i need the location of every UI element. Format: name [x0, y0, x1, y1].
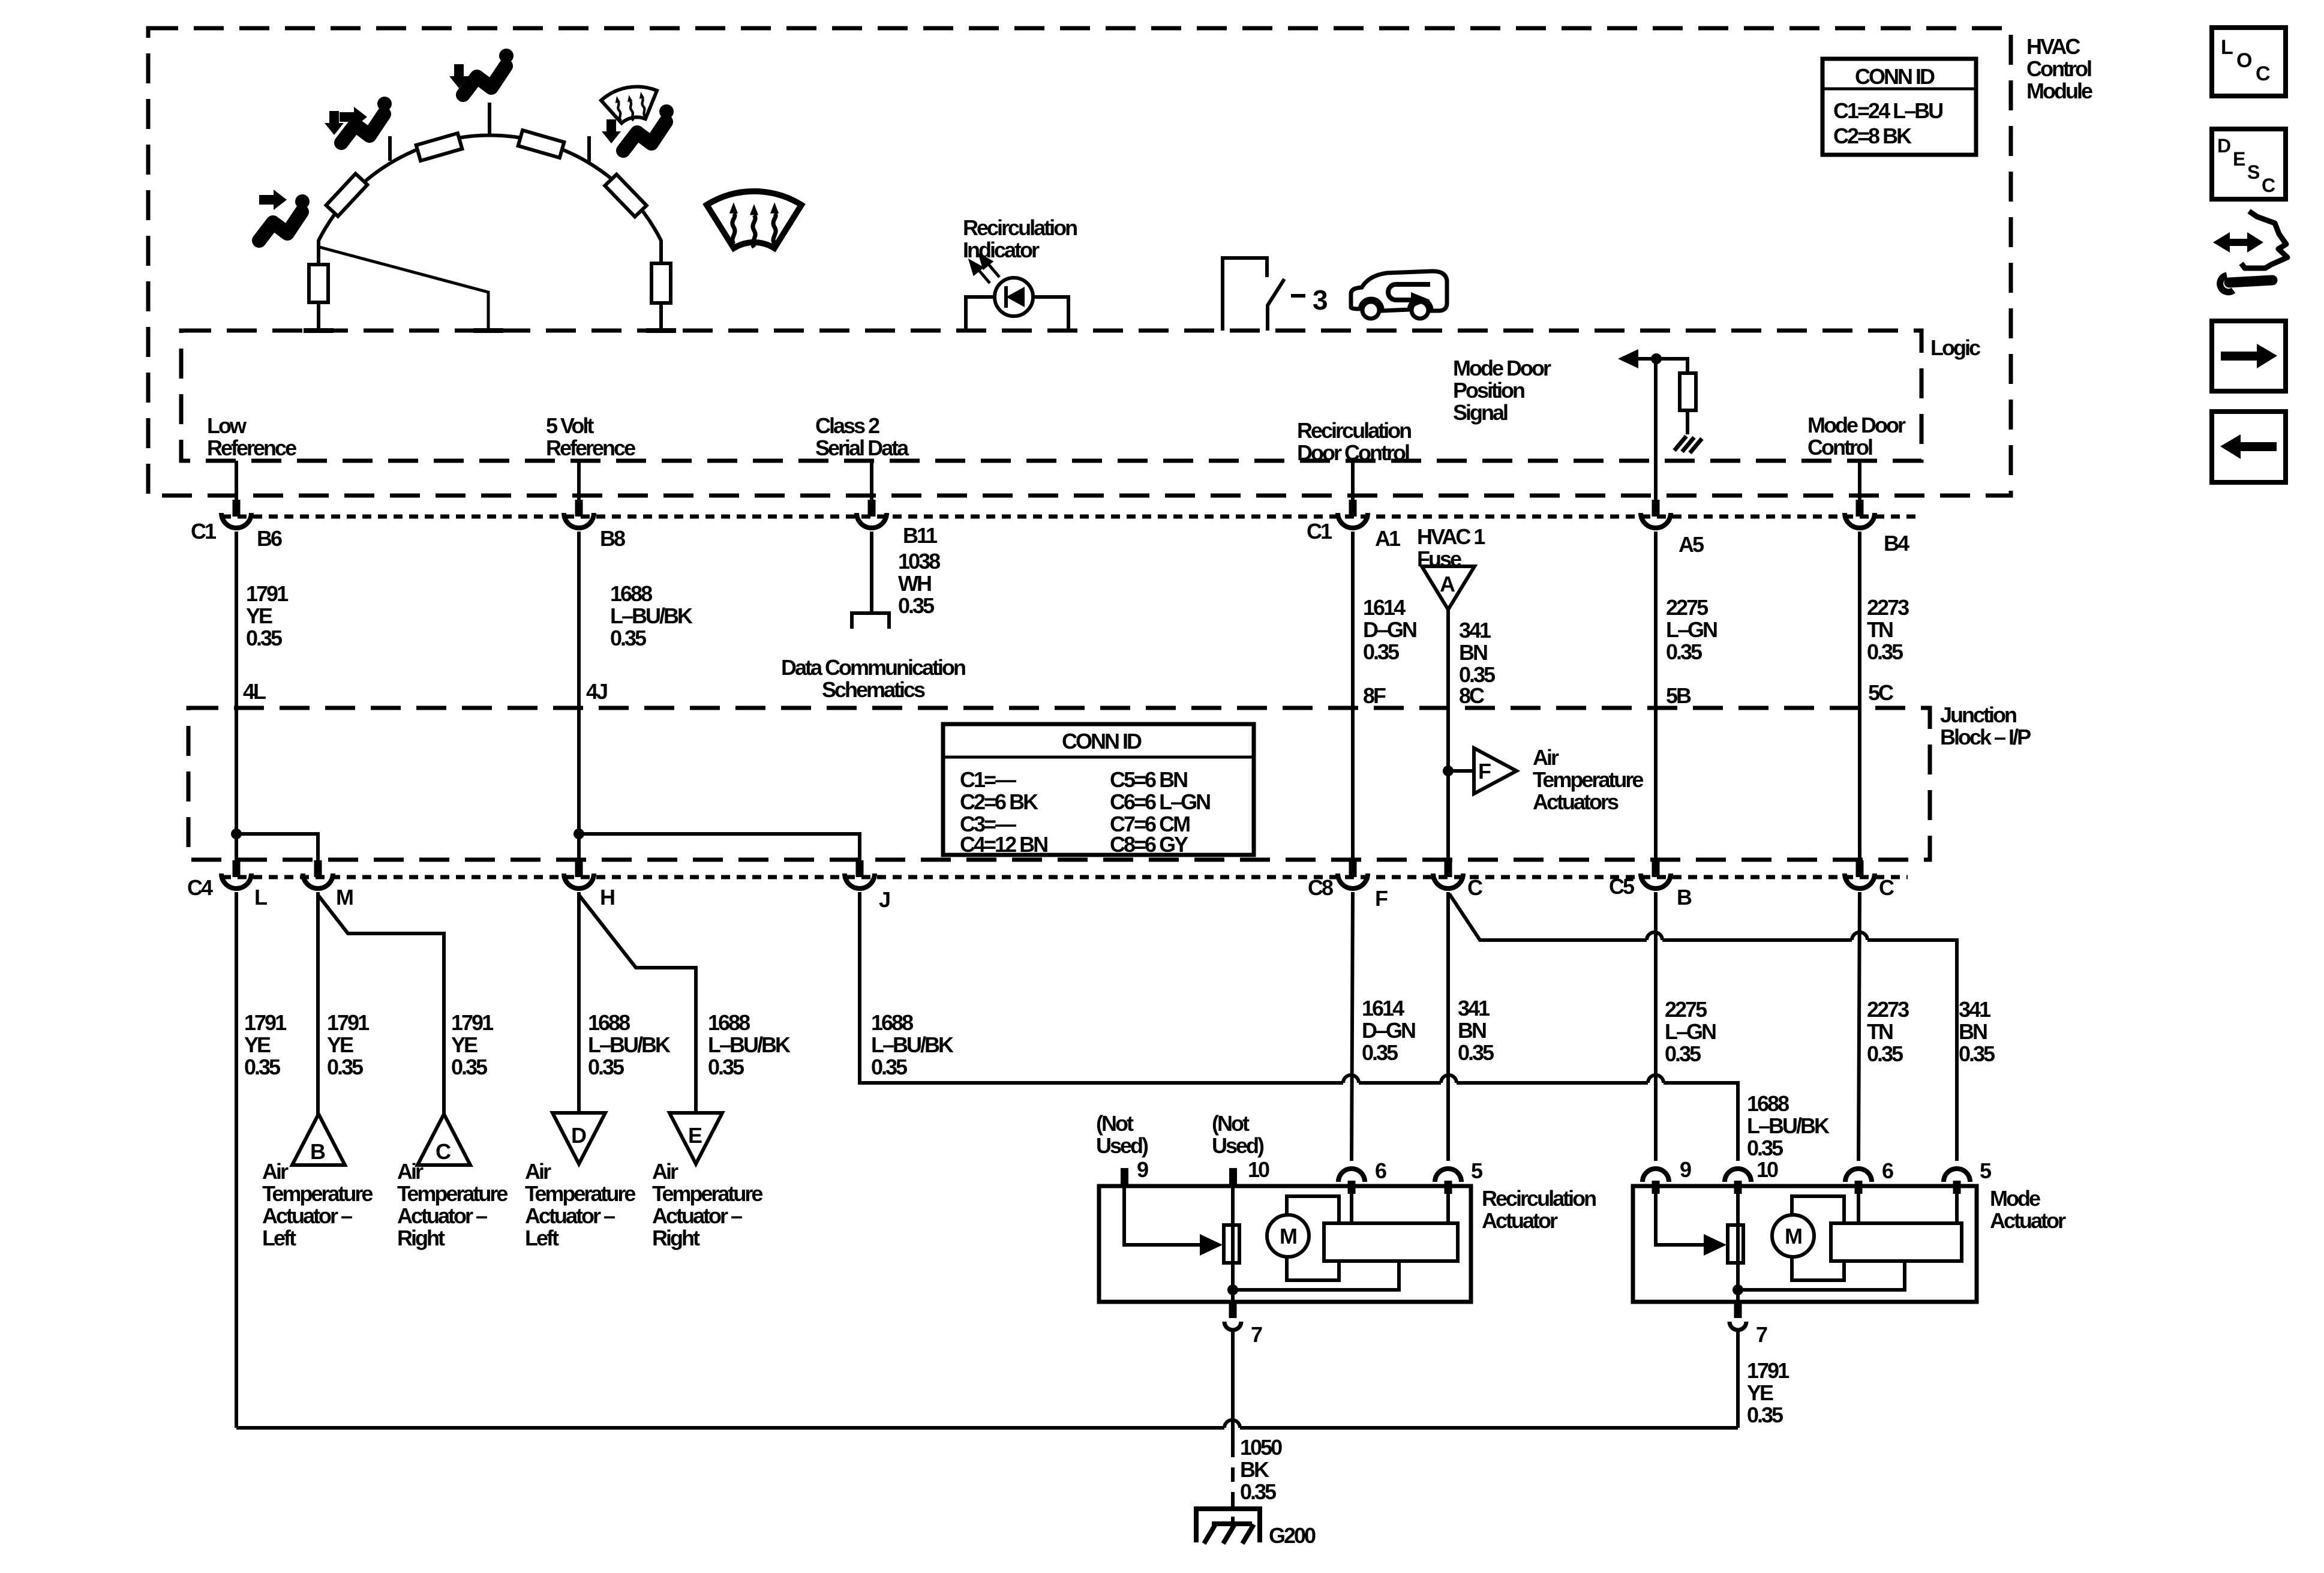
- wire 1688 B8 to junction 4J: [577, 532, 581, 877]
- triangle C: [418, 1114, 470, 1165]
- mode pin 6 connector: [1845, 1169, 1872, 1194]
- node mode wiper dot: [1733, 1284, 1743, 1295]
- svg-text:BK: BK: [1240, 1457, 1269, 1482]
- CONN ID table (middle): [943, 724, 1254, 857]
- svg-text:2275: 2275: [1665, 997, 1707, 1022]
- svg-text:Actuators: Actuators: [1533, 789, 1619, 814]
- connector H: [564, 873, 594, 888]
- svg-text:CONN ID: CONN ID: [1855, 64, 1935, 89]
- svg-text:BN: BN: [1459, 640, 1487, 665]
- mode pin 5 connector: [1944, 1169, 1970, 1194]
- wire 1038 WH to off-page: [870, 532, 873, 612]
- svg-text:Used): Used): [1096, 1133, 1148, 1158]
- svg-text:Reference: Reference: [546, 436, 635, 460]
- pin C1 A1: [1349, 500, 1357, 517]
- label 2273 TN 0.35 lower: [1867, 997, 1909, 1066]
- dashed wire to G200: [1231, 1443, 1235, 1525]
- svg-text:0.35: 0.35: [871, 1055, 908, 1079]
- svg-text:L–GN: L–GN: [1665, 1019, 1716, 1044]
- svg-text:C8: C8: [1308, 875, 1333, 900]
- svg-text:O: O: [2236, 49, 2252, 72]
- svg-text:1688: 1688: [871, 1010, 913, 1035]
- mode slider bar: [1831, 1223, 1962, 1261]
- label 1614 D-GN 0.35 lower: [1362, 996, 1415, 1065]
- mode pin5 wire into slider: [1955, 1187, 1959, 1223]
- Low Reference label: [207, 413, 296, 460]
- Mode Actuator label: [1990, 1186, 2066, 1233]
- wire 5V reference logic to B8: [577, 461, 581, 502]
- label 1791 YE 0.35 (C branch): [451, 1010, 494, 1079]
- svg-text:Actuator: Actuator: [1990, 1208, 2066, 1233]
- Air Temperature Actuators label: [1533, 745, 1643, 814]
- svg-text:Temperature: Temperature: [262, 1181, 373, 1206]
- HVAC Control Module label: [2026, 34, 2092, 103]
- svg-text:Actuator –: Actuator –: [525, 1203, 615, 1228]
- recirc pin5 wire into slider: [1446, 1187, 1450, 1223]
- seat icon vent arrow right: [259, 190, 287, 210]
- LOC nav box: [2212, 28, 2286, 96]
- mode pin6 wire into slider: [1857, 1187, 1860, 1223]
- wire 1050 BK down: [1231, 1332, 1235, 1443]
- svg-text:Schematics: Schematics: [822, 677, 925, 702]
- off-page staple symbol: [852, 613, 889, 629]
- selector left leg wire: [317, 240, 320, 265]
- svg-text:3: 3: [1313, 284, 1328, 316]
- label 1688 L-BU/BK 0.35 (mode 10): [1747, 1091, 1830, 1160]
- pullup resistor: [1680, 373, 1696, 410]
- wire C8 F to recirc pin 6: [1352, 892, 1353, 1161]
- svg-text:Recirculation: Recirculation: [1482, 1186, 1596, 1211]
- connector B11: [857, 513, 887, 528]
- svg-text:0.35: 0.35: [898, 593, 935, 618]
- svg-text:C4=12 BN: C4=12 BN: [960, 832, 1047, 857]
- node mode door position junction dot: [1651, 353, 1662, 364]
- svg-text:10: 10: [1248, 1157, 1269, 1182]
- svg-text:D–GN: D–GN: [1363, 617, 1416, 642]
- wire 1614 D-GN A1 to junction 8F: [1351, 532, 1355, 877]
- svg-text:YE: YE: [1747, 1380, 1773, 1405]
- wire 341 BN fuse to junction 8C: [1446, 610, 1450, 877]
- svg-text:1688: 1688: [588, 1010, 630, 1035]
- svg-text:10: 10: [1756, 1157, 1778, 1182]
- svg-text:C: C: [436, 1139, 451, 1164]
- wire class2 logic to B11: [870, 461, 873, 502]
- pin J: [856, 860, 864, 877]
- svg-text:1791: 1791: [451, 1010, 494, 1035]
- selector detent stub top: [488, 103, 491, 134]
- Recirculation Door Control label: [1297, 418, 1411, 465]
- svg-text:1791: 1791: [244, 1010, 287, 1035]
- svg-text:9: 9: [1137, 1157, 1148, 1182]
- connector M: [303, 873, 333, 888]
- connector B8: [564, 513, 594, 528]
- wire C5 B to mode pin 9: [1654, 892, 1658, 1161]
- label 341 BN 0.35 col5: [1459, 618, 1496, 687]
- svg-text:Logic: Logic: [1930, 335, 1980, 360]
- svg-text:1050: 1050: [1240, 1435, 1282, 1460]
- selector left leg wire lower: [317, 302, 320, 331]
- svg-text:Mode: Mode: [1990, 1186, 2040, 1211]
- Air Temperature Actuator - Left label (D): [525, 1159, 635, 1250]
- svg-text:C8=6 GY: C8=6 GY: [1110, 832, 1188, 857]
- Mode Door Position Signal label: [1453, 356, 1551, 425]
- svg-text:Air: Air: [397, 1159, 424, 1184]
- pin C1 B6: [233, 500, 241, 517]
- Data Communication Schematics label: [781, 655, 965, 702]
- svg-text:0.35: 0.35: [1362, 1040, 1398, 1065]
- LED light arrows: [971, 256, 999, 283]
- svg-text:B: B: [1677, 885, 1692, 909]
- seat icon bilevel arrow down: [325, 111, 344, 135]
- node recirc wiper dot: [1227, 1284, 1238, 1295]
- node junction dot col1: [231, 828, 242, 839]
- svg-text:J: J: [879, 887, 890, 912]
- wire 2275 L-GN A5 to junction 5B: [1654, 532, 1658, 877]
- svg-text:L–BU/BK: L–BU/BK: [708, 1032, 791, 1057]
- wire dot to pullup resistor: [1656, 359, 1688, 373]
- svg-text:Position: Position: [1453, 378, 1524, 403]
- svg-text:L–BU/BK: L–BU/BK: [588, 1032, 671, 1057]
- seat icon blend (upper-right): [623, 104, 674, 151]
- svg-text:C: C: [1467, 875, 1483, 900]
- svg-text:Temperature: Temperature: [525, 1181, 635, 1206]
- svg-text:L–BU/BK: L–BU/BK: [871, 1032, 954, 1057]
- connector C4 L: [221, 873, 251, 888]
- svg-text:A1: A1: [1375, 526, 1401, 551]
- svg-text:E: E: [688, 1123, 702, 1148]
- svg-text:C: C: [1879, 875, 1894, 900]
- defrost fan icon large: [707, 191, 801, 248]
- (Not Used) label recirc 9: [1096, 1111, 1148, 1158]
- pin B4: [1856, 500, 1864, 517]
- wire L to bottom bus: [235, 892, 238, 1428]
- svg-text:HVAC 1: HVAC 1: [1417, 524, 1485, 549]
- svg-text:Air: Air: [262, 1159, 289, 1184]
- seat icon vent (left): [259, 194, 310, 241]
- svg-text:TN: TN: [1867, 1019, 1893, 1044]
- recirc pin 6 connector: [1338, 1169, 1365, 1194]
- svg-text:(Not: (Not: [1212, 1111, 1250, 1136]
- svg-text:(Not: (Not: [1096, 1111, 1134, 1136]
- connector C1 A1: [1338, 513, 1368, 528]
- svg-text:0.35: 0.35: [1747, 1403, 1783, 1427]
- svg-text:341: 341: [1959, 997, 1991, 1022]
- svg-text:CONN ID: CONN ID: [1062, 729, 1142, 754]
- pin C (col5): [1445, 860, 1452, 877]
- svg-text:2273: 2273: [1867, 997, 1909, 1022]
- 5 Volt Reference label: [546, 413, 635, 460]
- svg-text:Reference: Reference: [207, 436, 296, 460]
- internal ground hatch: [1674, 436, 1702, 453]
- recirc pin10 wire through pot: [1231, 1187, 1235, 1290]
- DESC nav box: [2212, 129, 2286, 199]
- svg-text:TN: TN: [1867, 617, 1893, 642]
- svg-text:2275: 2275: [1666, 595, 1709, 620]
- svg-text:8F: 8F: [1363, 683, 1386, 708]
- svg-text:Class 2: Class 2: [815, 413, 879, 438]
- recirculation LED: [995, 278, 1033, 316]
- svg-text:6: 6: [1882, 1158, 1893, 1183]
- (Not Used) label recirc 10: [1212, 1111, 1264, 1158]
- svg-text:9: 9: [1680, 1157, 1691, 1182]
- connector C (col5): [1433, 873, 1463, 888]
- mode wiper link wire: [1738, 1262, 1905, 1290]
- 341 branch hop over col7: [1852, 932, 1867, 940]
- recirc pin6 wire into slider: [1350, 1187, 1353, 1223]
- wire low reference logic to C1 B6: [235, 461, 238, 502]
- HVAC 1 Fuse label: [1417, 524, 1485, 571]
- svg-text:G200: G200: [1269, 1523, 1316, 1548]
- mode internal pin9 arrow to pot: [1656, 1187, 1727, 1256]
- svg-text:C1: C1: [191, 519, 217, 544]
- label 1791 YE 0.35 (L): [244, 1010, 287, 1079]
- svg-text:4J: 4J: [586, 679, 607, 704]
- svg-text:WH: WH: [898, 571, 931, 596]
- recirc pin7 wire from dot: [1231, 1290, 1235, 1302]
- connector C (col7): [1845, 873, 1875, 888]
- svg-text:Actuator –: Actuator –: [397, 1203, 487, 1228]
- svg-text:YE: YE: [246, 604, 272, 628]
- mode pin 9 connector: [1643, 1169, 1669, 1194]
- wire C col5 to recirc pin 5: [1446, 892, 1450, 1161]
- svg-text:0.35: 0.35: [588, 1055, 624, 1079]
- svg-text:Block – I/P: Block – I/P: [1940, 725, 2031, 749]
- label 1688 L-BU/BK 0.35 (E): [708, 1010, 791, 1079]
- svg-text:1791: 1791: [246, 581, 289, 606]
- connector B4: [1845, 513, 1875, 528]
- svg-text:Air: Air: [525, 1159, 551, 1184]
- mode pin 7: [1730, 1300, 1746, 1330]
- Recirculation Actuator label: [1482, 1186, 1596, 1233]
- svg-text:0.35: 0.35: [1240, 1479, 1277, 1504]
- svg-text:Recirculation: Recirculation: [1297, 418, 1411, 443]
- recirculation LED bump wires: [966, 297, 1068, 331]
- selector detent stub right: [587, 136, 591, 161]
- svg-text:C6=6 L–GN: C6=6 L–GN: [1110, 789, 1210, 814]
- pin M: [314, 860, 322, 877]
- pin B8: [575, 500, 583, 517]
- svg-text:C1=––: C1=––: [960, 767, 1016, 792]
- recirc slider bar: [1324, 1223, 1458, 1261]
- svg-text:7: 7: [1756, 1322, 1767, 1347]
- wire dot to F triangle: [1448, 769, 1474, 773]
- wire branch col2 to J: [579, 834, 860, 877]
- mode selector arc: [319, 136, 661, 241]
- selector right leg wire lower: [659, 303, 663, 331]
- selector left leg resistor: [309, 265, 328, 302]
- mode pin7 wire from dot: [1736, 1290, 1740, 1302]
- svg-text:Serial Data: Serial Data: [815, 436, 909, 460]
- label 1050 BK 0.35: [1240, 1435, 1282, 1504]
- node fuse branch dot: [1443, 766, 1454, 776]
- svg-text:Left: Left: [262, 1226, 296, 1250]
- connector C8 F: [1338, 873, 1368, 888]
- svg-text:Indicator: Indicator: [963, 238, 1040, 262]
- svg-text:C1=24 L–BU: C1=24 L–BU: [1833, 98, 1942, 123]
- wire H to triangle D: [577, 892, 581, 1114]
- svg-text:C: C: [2262, 175, 2275, 196]
- svg-text:BN: BN: [1959, 1019, 1987, 1044]
- svg-text:Temperature: Temperature: [1533, 767, 1643, 792]
- label 1688 L-BU/BK 0.35 (J): [871, 1010, 954, 1079]
- selector wiper foot tick: [473, 328, 503, 333]
- Class 2 Serial Data label: [815, 413, 909, 460]
- svg-text:M: M: [336, 885, 353, 909]
- svg-text:L–BU/BK: L–BU/BK: [1747, 1113, 1830, 1138]
- pin C4 L: [233, 860, 241, 877]
- svg-text:B: B: [310, 1139, 325, 1164]
- wire mode door control logic to B4: [1858, 461, 1861, 502]
- mode motor frame: [1792, 1196, 1844, 1280]
- svg-text:1614: 1614: [1363, 595, 1406, 620]
- recirculation indicator label: [963, 215, 1077, 262]
- triangle E: [669, 1113, 722, 1164]
- svg-text:5: 5: [1471, 1158, 1483, 1183]
- mode motor M: [1772, 1215, 1814, 1257]
- selector right leg wire: [659, 240, 663, 263]
- svg-text:C: C: [2256, 62, 2271, 85]
- label 341 BN 0.35 (mode 5): [1959, 997, 1995, 1066]
- mode potentiometer: [1728, 1225, 1743, 1263]
- svg-text:Module: Module: [2026, 79, 2092, 103]
- selector detent stub left: [388, 136, 392, 161]
- label 1688 L-BU/BK 0.35 col2: [610, 581, 693, 650]
- triangle B: [292, 1114, 345, 1165]
- svg-text:0.35: 0.35: [1363, 640, 1400, 664]
- svg-text:C1: C1: [1307, 519, 1332, 544]
- F off-page triangle: [1474, 748, 1517, 794]
- wire 2273 TN B4 to junction 5C: [1858, 532, 1861, 877]
- svg-text:1038: 1038: [898, 549, 940, 574]
- svg-text:B11: B11: [903, 523, 938, 548]
- svg-text:M: M: [1280, 1224, 1296, 1248]
- pin B11: [868, 500, 876, 517]
- svg-text:341: 341: [1458, 996, 1490, 1020]
- HVAC Control Module outer dashed box: [148, 28, 2011, 496]
- connector C1 B6: [221, 513, 251, 528]
- svg-text:0.35: 0.35: [1666, 640, 1703, 664]
- left arrow nav box: [2212, 412, 2286, 482]
- svg-text:F: F: [1375, 886, 1388, 911]
- svg-text:B6: B6: [257, 526, 282, 551]
- svg-text:Temperature: Temperature: [652, 1181, 762, 1206]
- svg-text:0.35: 0.35: [1665, 1041, 1701, 1066]
- svg-text:2273: 2273: [1867, 595, 1909, 620]
- svg-text:4L: 4L: [243, 679, 266, 704]
- wire M branch to triangle C: [319, 896, 444, 1115]
- svg-text:0.35: 0.35: [451, 1055, 488, 1079]
- recirc wiper link wire: [1233, 1262, 1399, 1290]
- bus hop over col4: [1343, 1075, 1359, 1083]
- Mode Door Control label: [1807, 413, 1906, 460]
- svg-text:Actuator –: Actuator –: [262, 1203, 352, 1228]
- connector row 1 dotted line: [222, 515, 1920, 519]
- mode pin10 wire through pot: [1736, 1187, 1740, 1290]
- bus hop over col5: [1441, 1075, 1457, 1083]
- pin C (col7): [1856, 860, 1864, 877]
- label 1688 L-BU/BK 0.35 (D): [588, 1010, 671, 1079]
- svg-text:B4: B4: [1884, 531, 1909, 556]
- svg-text:C5: C5: [1609, 874, 1635, 899]
- label 2275 L-GN 0.35 col6: [1666, 595, 1717, 664]
- Mode Actuator box: [1633, 1186, 1977, 1302]
- fuse A symbol: [1422, 566, 1475, 610]
- right arrow nav box: [2212, 321, 2286, 391]
- svg-text:Air: Air: [1533, 745, 1559, 770]
- connector J: [845, 873, 875, 888]
- svg-text:C5=6 BN: C5=6 BN: [1110, 767, 1187, 792]
- Logic inner dashed box: [181, 331, 1921, 461]
- selector resistor R4 on arc: [605, 175, 646, 217]
- svg-text:0.35: 0.35: [246, 626, 283, 650]
- svg-text:Data Communication: Data Communication: [781, 655, 965, 680]
- svg-text:1688: 1688: [610, 581, 652, 606]
- connector C5 B: [1641, 873, 1671, 888]
- svg-text:D–GN: D–GN: [1362, 1018, 1415, 1043]
- svg-text:5 Volt: 5 Volt: [546, 413, 594, 438]
- recirc internal pin9 arrow to pot: [1124, 1187, 1223, 1256]
- svg-text:HVAC: HVAC: [2026, 34, 2080, 59]
- svg-text:Junction: Junction: [1940, 703, 2016, 727]
- label 1038 WH 0.35: [898, 549, 940, 618]
- svg-text:0.35: 0.35: [1959, 1041, 1995, 1066]
- wire 341 branch to mode pin 5: [1449, 894, 1957, 1161]
- svg-text:0.35: 0.35: [1867, 640, 1903, 664]
- svg-text:0.35: 0.35: [1458, 1040, 1494, 1065]
- bottom bus 1791 YE: [236, 1426, 1738, 1430]
- recirc potentiometer: [1224, 1225, 1239, 1263]
- Air Temperature Actuator - Right label (C): [397, 1159, 508, 1250]
- svg-text:Right: Right: [652, 1226, 700, 1250]
- svg-text:1614: 1614: [1362, 996, 1404, 1020]
- svg-text:Recirculation: Recirculation: [963, 215, 1077, 240]
- mode pin 10 connector: [1725, 1169, 1751, 1194]
- switch linkage dash: [1291, 294, 1305, 298]
- pin C5 B: [1652, 860, 1660, 877]
- recirc motor frame: [1287, 1196, 1339, 1280]
- svg-text:C2=6 BK: C2=6 BK: [960, 789, 1038, 814]
- svg-text:Used): Used): [1212, 1133, 1264, 1158]
- svg-text:Signal: Signal: [1453, 400, 1508, 425]
- CONN ID table (top right): [1822, 59, 1976, 155]
- wire 1791 YE mode pin7 to bus: [1736, 1332, 1740, 1428]
- svg-text:Left: Left: [525, 1226, 559, 1250]
- defrost fan icon small: [600, 83, 662, 126]
- svg-text:Mode Door: Mode Door: [1807, 413, 1906, 437]
- selector wiper arm: [320, 247, 488, 331]
- svg-text:L–BU/BK: L–BU/BK: [610, 604, 693, 628]
- selector resistor R1 on arc: [326, 173, 368, 216]
- ground G200 symbol: [1196, 1509, 1260, 1544]
- pin H: [575, 860, 583, 877]
- svg-text:B8: B8: [600, 526, 625, 551]
- svg-text:L–GN: L–GN: [1666, 617, 1717, 642]
- svg-text:YE: YE: [327, 1032, 353, 1057]
- svg-text:YE: YE: [451, 1032, 478, 1057]
- svg-text:8C: 8C: [1459, 683, 1485, 708]
- svg-text:H: H: [600, 885, 614, 909]
- svg-text:1791: 1791: [327, 1010, 370, 1035]
- wire M to triangle B: [316, 892, 320, 1115]
- 341 branch hop over col6: [1647, 932, 1662, 940]
- selector right leg resistor: [651, 263, 671, 303]
- svg-text:S: S: [2247, 161, 2260, 183]
- svg-text:Mode Door: Mode Door: [1453, 356, 1551, 380]
- svg-text:6: 6: [1375, 1158, 1386, 1183]
- svg-text:BN: BN: [1458, 1018, 1486, 1043]
- node junction dot col2: [574, 828, 584, 839]
- svg-text:5: 5: [1980, 1158, 1992, 1183]
